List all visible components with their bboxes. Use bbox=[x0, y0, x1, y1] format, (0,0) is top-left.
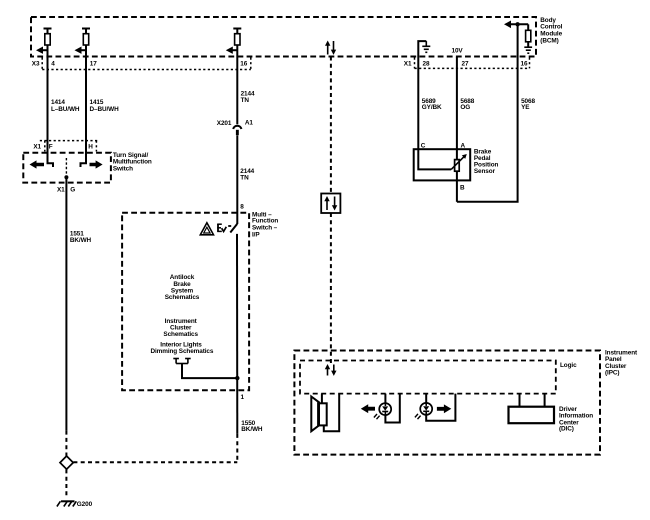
svg-text:BK/WH: BK/WH bbox=[241, 426, 263, 433]
arrow (signal direction) on wire 1414 inside BCM bbox=[36, 47, 48, 54]
wire inside BCM from node to pin 16 bbox=[517, 24, 519, 57]
svg-text:8: 8 bbox=[240, 203, 244, 210]
reference text: instrument cluster schematics bbox=[163, 318, 198, 338]
svg-text:H: H bbox=[88, 144, 93, 151]
right turn contact (pin H) inside switch bbox=[81, 153, 87, 167]
switch actuation symbol Ev- bbox=[217, 224, 231, 232]
brake pedal position sensor box bbox=[414, 149, 471, 180]
bold left arrow (left turn indicator) bbox=[361, 404, 375, 413]
svg-text:(IPC): (IPC) bbox=[605, 370, 619, 377]
sensor name label bbox=[474, 148, 499, 175]
svg-text:4: 4 bbox=[51, 60, 55, 67]
logic block dashed box inside IPC bbox=[300, 361, 556, 394]
wire 1414 from BCM pin 4 to turn signal switch bbox=[47, 45, 49, 153]
speaker return wire to logic bbox=[324, 394, 339, 432]
dashed serial data wire continues into IPC logic bbox=[330, 213, 332, 364]
wire 1415 from BCM pin 17 to turn signal switch bbox=[85, 45, 87, 153]
dashed ground wire from splice to G200 bbox=[65, 469, 67, 497]
wire label 1551 BK/WH bbox=[70, 231, 92, 244]
svg-text:A: A bbox=[461, 143, 466, 150]
speaker (chime) symbol bbox=[311, 397, 326, 432]
svg-text:10V: 10V bbox=[452, 48, 464, 55]
turn signal switch name label bbox=[113, 152, 152, 173]
wire 1551 from switch pin G to splice bbox=[65, 196, 67, 431]
wire 2144 from X201 to multifunction switch pin 8 bbox=[236, 135, 238, 224]
svg-text:1: 1 bbox=[241, 394, 245, 401]
arrow (signal direction) at BCM pin 16 input bbox=[504, 21, 528, 29]
driver information center DIC box bbox=[509, 407, 555, 424]
svg-text:F: F bbox=[49, 144, 53, 151]
right turn indicator LED lamp bbox=[415, 403, 432, 419]
svg-text:TN: TN bbox=[241, 97, 250, 104]
right turn indicator lamp wire from logic bbox=[425, 394, 427, 404]
ground G200 symbol bbox=[57, 501, 76, 506]
bold right arrow (right turn indicator) bbox=[437, 404, 451, 413]
svg-text:L–BU/WH: L–BU/WH bbox=[51, 106, 80, 113]
svg-text:OG: OG bbox=[460, 104, 470, 111]
dashed segment of wire 1551 to splice diamond bbox=[65, 431, 67, 457]
off-schematic connection bracket symbol bbox=[173, 359, 190, 364]
svg-text:X1: X1 bbox=[57, 187, 65, 194]
svg-text:X3: X3 bbox=[32, 60, 40, 67]
wiper arrow bbox=[451, 154, 467, 169]
instrument panel cluster IPC dashed box bbox=[294, 351, 600, 455]
IPC name label bbox=[605, 349, 638, 376]
arrow (signal direction) on wire 1415 inside BCM bbox=[75, 47, 87, 54]
wire label 5068 YE bbox=[521, 98, 535, 111]
svg-text:G: G bbox=[70, 187, 75, 194]
svg-text:X201: X201 bbox=[217, 120, 232, 127]
svg-text:16: 16 bbox=[240, 60, 247, 67]
sensor wiper wire from pin C bbox=[418, 149, 451, 169]
arrow (signal direction) on wire 2144 inside BCM bbox=[226, 47, 238, 54]
reference text: antilock brake system schematics bbox=[165, 274, 200, 301]
wire pin B from potentiometer bottom bbox=[456, 171, 458, 202]
wire 2144 from BCM pin 16 to connector X201 bbox=[236, 45, 238, 124]
dashed splice wire from diamond to wire 1550 bbox=[73, 461, 237, 463]
body control module BCM dashed box bbox=[31, 17, 536, 57]
svg-text:Dimming Schematics: Dimming Schematics bbox=[150, 348, 213, 355]
svg-text:Switch: Switch bbox=[113, 166, 133, 173]
svg-text:TN: TN bbox=[240, 175, 249, 182]
right lamp return wire to logic bbox=[426, 394, 455, 421]
pull-up resistor (fuse style) inside BCM to ground bbox=[526, 24, 531, 47]
up/down off-page arrows at BCM serial data line bbox=[325, 41, 336, 55]
wire from bracket to junction on wire 1550 bbox=[182, 364, 237, 379]
svg-text:I/P: I/P bbox=[252, 231, 260, 238]
svg-text:X1: X1 bbox=[33, 144, 41, 151]
dashed segment of wire 1550 to splice bbox=[236, 434, 238, 462]
hazard warning triangle symbol bbox=[200, 223, 213, 235]
wire label 5689 GY/BK bbox=[422, 98, 442, 111]
wire label 1414 L-BU/WH bbox=[51, 99, 80, 113]
inline connector X201 pin A1 on wire 2144 bbox=[233, 126, 241, 135]
turn signal / multifunction switch dashed box bbox=[23, 153, 111, 183]
wire from switch blade to pin 1 bbox=[236, 234, 238, 434]
junction dot at switch common bbox=[64, 175, 68, 179]
switch mechanical linkage (dashed) bbox=[65, 158, 67, 177]
svg-text:27: 27 bbox=[462, 60, 469, 67]
svg-text:Sensor: Sensor bbox=[474, 168, 496, 175]
svg-text:17: 17 bbox=[90, 60, 97, 67]
DIC name label bbox=[559, 406, 593, 433]
wire 5688 from BCM pin 27 (10V) to sensor bbox=[456, 57, 458, 160]
wire label 1550 BK/WH bbox=[241, 420, 263, 433]
switch name label bbox=[252, 211, 278, 238]
speaker wire from logic bbox=[321, 394, 323, 404]
fuse symbol in BCM (left, feed of circuit 1414) bbox=[44, 29, 52, 46]
wire 5689 from BCM pin 28 to sensor pin C bbox=[417, 57, 419, 149]
potentiometer element R inside sensor bbox=[455, 160, 460, 172]
svg-text:28: 28 bbox=[423, 60, 430, 67]
svg-text:Schematics: Schematics bbox=[163, 331, 198, 338]
ground symbol inside BCM at pin16 pull-up bbox=[524, 47, 532, 53]
DIC wire 2 from logic bbox=[544, 394, 546, 407]
connector X1 pin row (right) bbox=[415, 58, 530, 69]
ground symbol inside BCM above pin 28 bbox=[418, 41, 430, 57]
left lamp return wire to logic bbox=[385, 394, 399, 423]
splice diamond node bbox=[60, 456, 73, 469]
hazard switch blade (open contact) bbox=[230, 224, 237, 233]
connector X3 pin row (left) bbox=[42, 58, 251, 70]
fuse symbol in BCM (feed of circuit 1415) bbox=[82, 29, 90, 46]
left turn indicator LED lamp bbox=[374, 403, 391, 419]
left turn contact (pin F) inside switch bbox=[48, 153, 54, 167]
svg-text:C: C bbox=[421, 143, 426, 150]
reference text: interior lights dimming schematics bbox=[150, 341, 213, 355]
junction dot on BCM pin16 signal node bbox=[515, 22, 519, 26]
bold left arrow (left turn) inside switch bbox=[30, 160, 45, 168]
boxed up/down connector symbol on serial data wire bbox=[321, 194, 340, 214]
connector X1 pin row above turn signal switch bbox=[40, 141, 100, 152]
wire label 2144 TN (lower) bbox=[240, 168, 254, 181]
svg-text:Switch –: Switch – bbox=[252, 224, 278, 231]
wire label 5688 OG bbox=[460, 98, 474, 111]
svg-text:(BCM): (BCM) bbox=[540, 37, 558, 44]
svg-text:YE: YE bbox=[521, 104, 530, 111]
wire label 2144 TN (upper) bbox=[241, 91, 255, 104]
svg-text:Logic: Logic bbox=[560, 362, 577, 369]
svg-text:G200: G200 bbox=[77, 501, 93, 508]
svg-text:A1: A1 bbox=[245, 120, 254, 127]
bold right arrow (right turn) inside switch bbox=[90, 160, 103, 168]
left turn indicator lamp wire from logic bbox=[384, 394, 386, 404]
svg-text:D–BU/WH: D–BU/WH bbox=[90, 106, 120, 113]
fuse symbol in BCM (feed of circuit 2144) bbox=[233, 29, 241, 46]
wire label 1415 D-BU/WH bbox=[90, 99, 120, 113]
multifunction switch I/P dashed box bbox=[122, 213, 249, 390]
svg-text:(DIC): (DIC) bbox=[559, 426, 574, 433]
wire from switch common to pin G bbox=[65, 177, 67, 196]
svg-text:Schematics: Schematics bbox=[165, 294, 200, 301]
up/down serial data arrows inside logic bbox=[325, 364, 337, 376]
svg-text:B: B bbox=[460, 184, 465, 191]
wire 5068 from BCM pin 16 down right side bbox=[457, 57, 518, 202]
svg-text:X1: X1 bbox=[404, 60, 412, 67]
junction dot on wire 1550 bbox=[235, 376, 239, 380]
svg-text:GY/BK: GY/BK bbox=[422, 104, 442, 111]
BCM name label bbox=[540, 17, 562, 44]
svg-text:16: 16 bbox=[521, 60, 528, 67]
DIC wire 1 from logic bbox=[519, 394, 521, 407]
svg-text:BK/WH: BK/WH bbox=[70, 237, 92, 244]
dashed serial data wire from BCM down to IPC bbox=[330, 57, 332, 194]
